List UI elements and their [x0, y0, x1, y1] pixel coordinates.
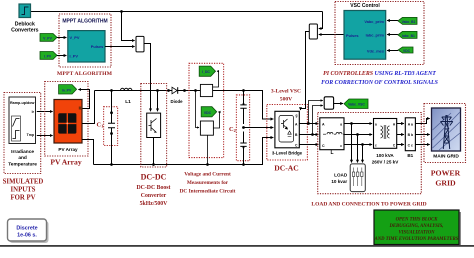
wire: PV m output to m_PV tag	[78, 90, 89, 109]
wire: B1 to grid phase A	[415, 119, 429, 124]
svg-text:FOR CORRECTION OF CONTROL SIGN: FOR CORRECTION OF CONTROL SIGNALS	[321, 80, 439, 86]
svg-text:Temperature: Temperature	[8, 161, 37, 167]
svg-text:1e-06 s.: 1e-06 s.	[17, 233, 37, 239]
tag: From V_PV	[40, 34, 57, 42]
svg-text:I_DC: I_DC	[202, 70, 210, 74]
wire: L phase a to transformer	[344, 123, 372, 125]
wire: Tmp to PV Array	[37, 135, 53, 137]
wire: SW1 output down to IGBT gate	[144, 44, 151, 112]
svg-text:c: c	[340, 144, 342, 148]
svg-text:VSC Control: VSC Control	[350, 3, 380, 9]
tag: From Iabc_B1	[398, 31, 417, 38]
svg-text:C: C	[322, 144, 325, 148]
svg-text:L: L	[330, 150, 333, 156]
svg-text:V_PV: V_PV	[70, 35, 80, 40]
svg-text:OPEN THIS BLOCK: OPEN THIS BLOCK	[396, 218, 439, 223]
wire: VDC to VSC	[387, 50, 398, 52]
svg-text:Diode: Diode	[171, 99, 184, 104]
svg-text:Iabc_prim: Iabc_prim	[366, 33, 385, 38]
node: junction on deblock bus for MPPT switch	[120, 10, 123, 13]
node: load tap phase a	[350, 122, 353, 125]
svg-text:DC-DC: DC-DC	[141, 173, 167, 182]
block: MPPT controller U1	[68, 31, 105, 62]
svg-text:POWER: POWER	[431, 168, 461, 177]
svg-text:MPPT ALGORITHM: MPPT ALGORITHM	[62, 19, 107, 25]
wire: SW2 output down to bridge gate	[301, 32, 310, 111]
wire: DC top bus	[95, 91, 274, 120]
node: V+ tap on bus	[194, 89, 197, 92]
wire: bus tap to voltage measurement +	[196, 91, 200, 128]
svg-text:Tmp: Tmp	[27, 133, 34, 137]
dashed area: Voltage and Current measurement	[189, 63, 224, 157]
annotation: POWER GRID	[431, 168, 461, 187]
svg-text:AND TIME EVOLUTION PARAMETERS: AND TIME EVOLUTION PARAMETERS	[374, 237, 459, 242]
diode D1	[167, 87, 186, 104]
wire: transformer to B1 phase C	[397, 144, 404, 146]
dashed area: SIMULATED INPUTS	[4, 93, 41, 174]
block: current measurement	[200, 84, 212, 96]
wire: B1 to grid phase B	[415, 134, 429, 136]
block: VSC Control U3	[344, 11, 386, 60]
annotation: C2 label	[229, 126, 236, 133]
block: switch SW2 (VSC pulse enable, mirrored)	[309, 24, 317, 39]
tag: From Vabc_B1	[398, 17, 417, 24]
svg-text:MAIN GRID: MAIN GRID	[433, 153, 459, 159]
wire: bridge phase A to L	[299, 123, 318, 125]
node: load tap phase c	[361, 143, 364, 146]
wire: Iabc_B1 to VSC	[387, 34, 398, 36]
svg-text:260V / 25 kV: 260V / 25 kV	[372, 159, 399, 164]
block: Deblock Converters	[11, 4, 39, 34]
svg-text:PI CONTROLLERS USING RL-TD3 AG: PI CONTROLLERS USING RL-TD3 AGENT	[323, 71, 436, 77]
svg-text:m_PV: m_PV	[62, 88, 72, 92]
svg-text:Discrete: Discrete	[16, 226, 37, 232]
capacitor C1	[108, 89, 115, 166]
svg-text:PV Array: PV Array	[58, 147, 78, 152]
transistor Q1 IGBT	[147, 113, 161, 137]
tag: Goto Vabc_VSC	[344, 99, 368, 109]
svg-text:LOAD AND CONNECTION TO POWER G: LOAD AND CONNECTION TO POWER GRID	[311, 202, 426, 208]
wire: Vabc_B1 to VSC	[387, 20, 398, 22]
svg-text:Iabc_B1: Iabc_B1	[402, 34, 415, 38]
annotation: LOAD AND CONNECTION TO POWER GRID	[311, 202, 426, 208]
annotation: PV Array label	[50, 157, 81, 166]
tag: Goto m_PV	[59, 85, 77, 94]
svg-text:DC Intermediate Circuit: DC Intermediate Circuit	[180, 189, 236, 195]
annotation: MPPT ALGORITHM label	[57, 71, 113, 77]
wire: phase B tap up to mux	[313, 106, 323, 135]
wire: Deblock output bus along top	[30, 11, 323, 13]
svg-text:A a: A a	[408, 122, 413, 126]
svg-text:B b: B b	[408, 133, 413, 137]
annotation: LOAD 10 kvar	[331, 173, 348, 184]
block: PV Array	[54, 100, 82, 153]
annotation: 3-Level VSC 500V	[271, 89, 301, 103]
svg-text:a: a	[340, 123, 342, 127]
dashed area: C2	[236, 95, 249, 161]
node: phase B tap	[311, 133, 314, 136]
annotation: DC-AC label	[274, 164, 298, 173]
svg-text:Irradiance: Irradiance	[11, 149, 34, 155]
svg-text:3-Level VSC: 3-Level VSC	[271, 89, 301, 95]
annotation: C1 label	[97, 122, 104, 129]
svg-text:VISUALIZATION: VISUALIZATION	[399, 231, 436, 236]
wire: Ir to PV Array	[37, 111, 53, 113]
wire: voltage measurement - down to bottom bus	[206, 135, 209, 166]
wire: I_PV tag to MPPT	[57, 55, 66, 57]
wire: V_PV tag to MPPT	[57, 37, 66, 39]
svg-text:I_PV: I_PV	[70, 54, 79, 59]
dashed area: POWER GRID	[424, 104, 466, 163]
svg-text:Vabc_prim: Vabc_prim	[364, 19, 384, 24]
capacitor C2a	[240, 91, 246, 125]
svg-text:I_PV: I_PV	[44, 54, 52, 58]
svg-text:500V: 500V	[280, 97, 292, 103]
svg-text:C c: C c	[408, 144, 413, 148]
inductor L1	[121, 88, 132, 105]
node: collector junction on top bus	[156, 89, 159, 92]
block: B1 measurement	[405, 118, 415, 158]
svg-text:5kHz/500V: 5kHz/500V	[140, 201, 169, 207]
svg-text:3-Level Bridge: 3-Level Bridge	[272, 150, 303, 155]
svg-text:DC-DC Boost: DC-DC Boost	[137, 185, 171, 191]
svg-text:c: c	[375, 144, 377, 148]
wire: deblock bus down to switch SW2 input 1	[319, 12, 323, 29]
svg-text:10 kvar: 10 kvar	[331, 179, 347, 184]
wire: B1 to grid phase C	[415, 144, 429, 146]
block: MAIN GRID subsystem	[432, 108, 461, 159]
wire: phase c down to load	[362, 145, 364, 163]
svg-text:FOR PV: FOR PV	[10, 195, 35, 202]
capacitor C2b	[240, 89, 246, 166]
dashed area: MPPT ALGORITHM	[59, 14, 111, 67]
svg-text:INPUTS: INPUTS	[11, 187, 36, 194]
svg-text:A: A	[322, 123, 325, 127]
wire: L phase c to transformer	[344, 144, 372, 146]
svg-text:L1: L1	[125, 99, 131, 105]
svg-text:Pulses: Pulses	[91, 44, 104, 49]
svg-text:Vabc_VSC: Vabc_VSC	[348, 103, 365, 107]
svg-text:Pulses: Pulses	[346, 33, 359, 38]
svg-text:Converter: Converter	[141, 193, 167, 199]
wire: transformer to B1 phase A	[397, 123, 404, 125]
svg-text:Ramp-up/dow: Ramp-up/dow	[10, 101, 35, 105]
wire: bridge phase B to L	[299, 134, 318, 136]
wire: PV - output to DC bottom bus	[82, 140, 94, 165]
block: transformer 100 kVA	[372, 119, 399, 165]
wire: PV + output to DC top bus	[82, 91, 95, 124]
dashed area: DC-AC	[267, 105, 308, 161]
block: switch SW1 (pulse enable)	[136, 36, 144, 52]
wire: voltage meas output to V_DC tag	[213, 112, 219, 128]
svg-text:LOAD: LOAD	[334, 173, 348, 178]
svg-text:DEBUGGING, ANALYSIS,: DEBUGGING, ANALYSIS,	[389, 224, 444, 229]
tag: From I_PV	[40, 52, 57, 60]
wire: current meas output to I_DC tag	[213, 71, 219, 87]
block: Irradiance and Temperature source	[8, 97, 37, 167]
tag: Goto V_DC	[201, 107, 217, 117]
block: mux for Vabc measurement	[324, 97, 333, 109]
annotation: DC-DC labels	[137, 173, 171, 208]
svg-text:PV Array: PV Array	[50, 157, 81, 166]
svg-text:100 kVA: 100 kVA	[376, 153, 394, 158]
annotation: PI CONTROLLERS USING RL-TD3 AGENT	[321, 71, 439, 86]
svg-text:Measurements for: Measurements for	[187, 180, 229, 186]
svg-text:B1: B1	[407, 153, 413, 158]
wire: bridge phase C to L	[299, 144, 318, 146]
block: 3-Level Bridge U2	[272, 111, 303, 155]
dashed area: PV Array	[45, 82, 88, 157]
dashed area: LOAD AND CONNECTION TO POWER GRID	[318, 113, 422, 194]
svg-text:VDC: VDC	[204, 111, 212, 115]
wire: phase A tap up to mux	[309, 101, 323, 124]
wire: L phase b to transformer	[344, 134, 372, 136]
svg-text:SIMULATED: SIMULATED	[3, 179, 44, 186]
wire: top bus down to IGBT collector	[157, 91, 159, 112]
dashed area: DC-DC boost	[141, 84, 167, 168]
annotation: green OPEN THIS BLOCK note	[374, 210, 461, 247]
svg-text:Vabc_B1: Vabc_B1	[402, 20, 416, 24]
svg-text:and: and	[18, 155, 27, 161]
block: Discrete solver info	[8, 219, 49, 243]
dashed area: VSC Control	[335, 2, 424, 65]
window bottom border line	[0, 245, 474, 247]
tag: From VDC	[398, 47, 413, 53]
wire: MPPT Pulses to switch SW1	[105, 46, 135, 48]
block: voltage measurement	[200, 121, 213, 135]
wire: IGBT emitter to bottom bus	[152, 138, 155, 166]
wire: transformer to B1 phase B	[397, 134, 404, 136]
wire: DC bottom bus	[94, 138, 274, 165]
svg-text:GRID: GRID	[435, 179, 456, 188]
annotation: Voltage and Current Measurements	[180, 172, 236, 195]
node: load tap phase b	[356, 133, 359, 136]
block: L three-phase series branch	[320, 118, 345, 156]
svg-text:V_PV: V_PV	[43, 36, 52, 40]
tag: Goto I_DC	[199, 66, 215, 76]
wire: phase a down to load	[351, 124, 353, 163]
wire: C2 midpoint to bridge N	[244, 127, 274, 129]
dashed area: C1	[104, 107, 118, 146]
wire: deblock bus down to switch SW1 input 1	[122, 12, 135, 41]
svg-text:g: g	[296, 114, 298, 118]
wire: VSC Pulses to SW2	[319, 34, 344, 36]
svg-text:MPPT ALGORITHM: MPPT ALGORITHM	[57, 71, 113, 77]
block: three-phase LOAD	[350, 164, 365, 192]
svg-text:VDC: VDC	[403, 49, 411, 53]
node: phase A tap	[307, 122, 310, 125]
svg-text:Converters: Converters	[11, 28, 39, 34]
annotation: SIMULATED INPUTS FOR PV	[3, 179, 44, 202]
wire: mux to Vabc_VSC tag	[334, 103, 343, 105]
svg-text:a: a	[375, 122, 377, 126]
svg-text:Vdc_mes: Vdc_mes	[367, 48, 384, 53]
wire: phase b down to load	[357, 135, 359, 163]
svg-text:Voltage and Current: Voltage and Current	[184, 172, 231, 178]
svg-text:DC-AC: DC-AC	[274, 164, 298, 173]
